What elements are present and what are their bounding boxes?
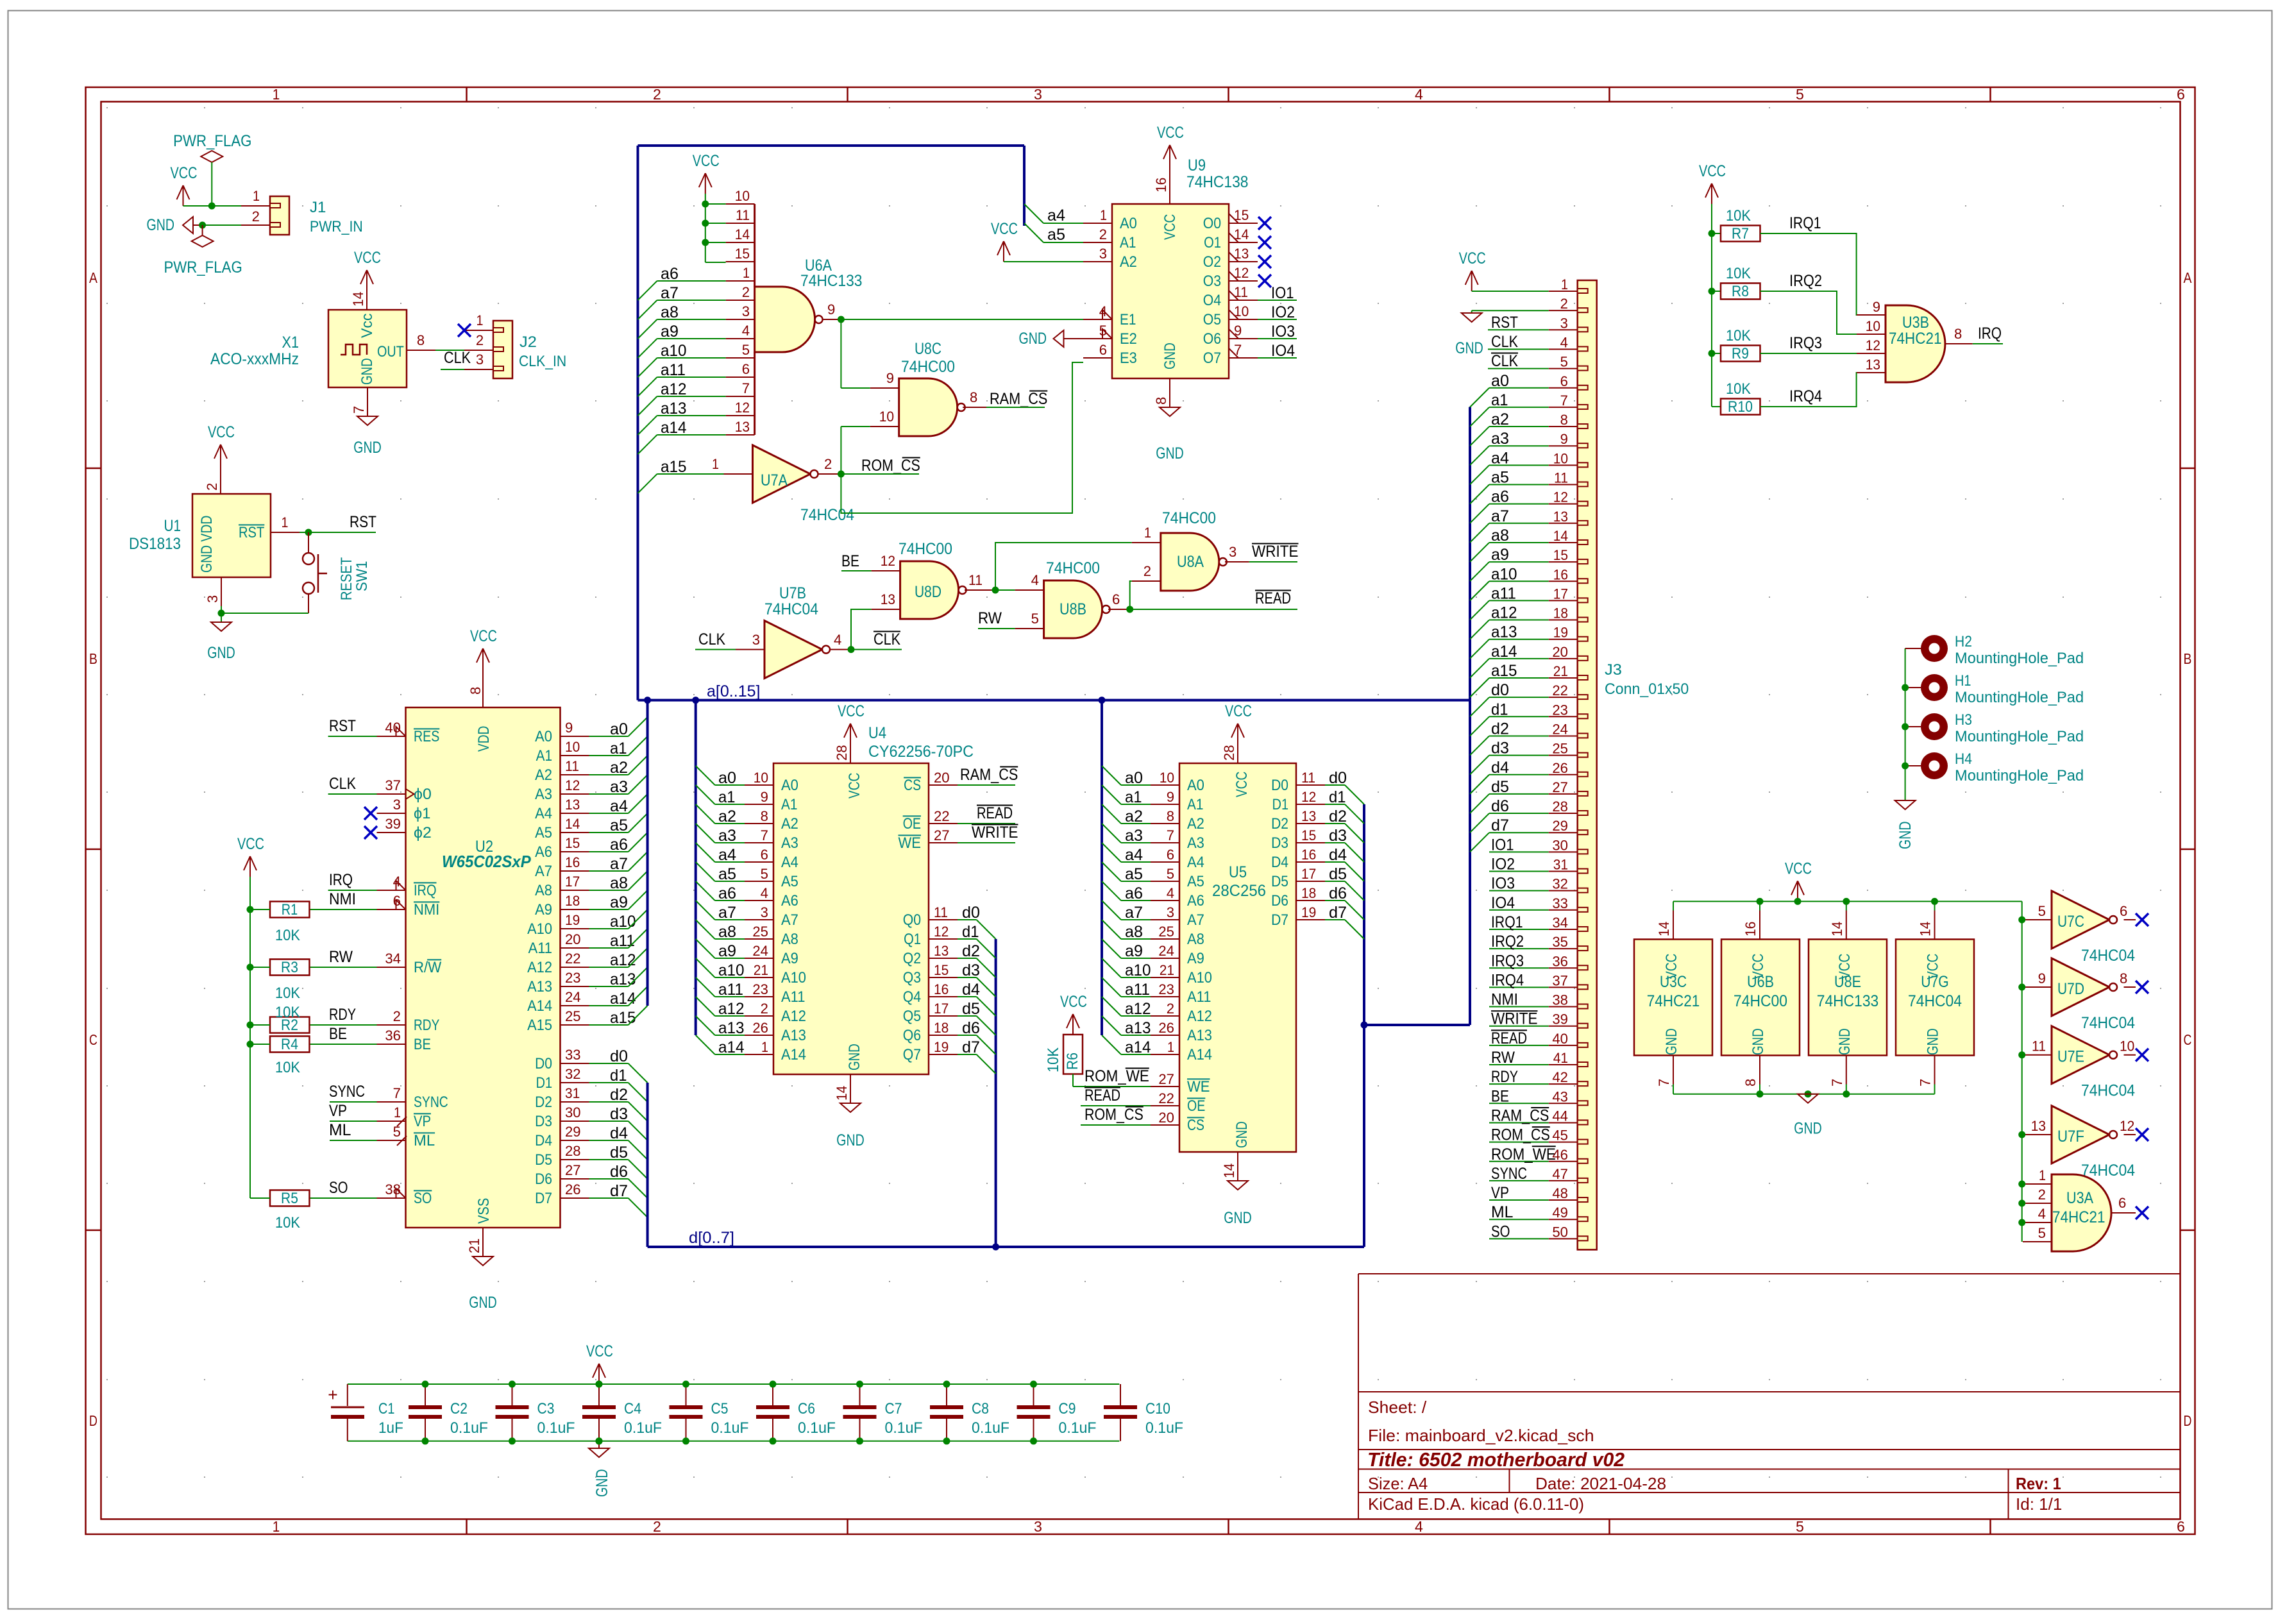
svg-text:13: 13 bbox=[565, 797, 580, 813]
svg-text:9: 9 bbox=[761, 789, 768, 805]
svg-text:A6: A6 bbox=[535, 843, 552, 861]
svg-text:2: 2 bbox=[476, 332, 484, 348]
svg-text:30: 30 bbox=[1552, 837, 1568, 853]
svg-text:d1: d1 bbox=[610, 1067, 627, 1085]
svg-text:a3: a3 bbox=[718, 827, 736, 845]
svg-text:O4: O4 bbox=[1203, 292, 1221, 309]
wire a2 to U4 bbox=[715, 823, 745, 824]
svg-text:3: 3 bbox=[1560, 315, 1568, 331]
svg-text:A14: A14 bbox=[781, 1046, 806, 1063]
svg-text:4: 4 bbox=[1167, 885, 1174, 901]
wire d4 from U4 bbox=[958, 996, 977, 997]
svg-text:11: 11 bbox=[1554, 470, 1568, 486]
svg-text:WRITE: WRITE bbox=[1491, 1010, 1538, 1028]
wire a11 to U4 bbox=[715, 996, 745, 997]
svg-text:a11: a11 bbox=[718, 981, 743, 999]
U2 left pins bbox=[377, 736, 406, 737]
svg-text:U8A: U8A bbox=[1177, 553, 1204, 571]
svg-text:IRQ4: IRQ4 bbox=[1491, 971, 1524, 989]
bus d[0..7] horizontal bbox=[648, 1246, 1364, 1248]
svg-text:WE: WE bbox=[1187, 1078, 1210, 1095]
svg-text:12: 12 bbox=[2120, 1118, 2134, 1134]
svg-text:d5: d5 bbox=[1329, 865, 1347, 883]
no-connect U7C output bbox=[2136, 913, 2148, 926]
junction C9 bottom bbox=[1030, 1437, 1037, 1444]
VCC symbol IRQ rail bbox=[1711, 183, 1712, 204]
svg-text:J1: J1 bbox=[310, 199, 326, 216]
wire d0 from U5 bbox=[1325, 784, 1345, 786]
svg-text:CLK: CLK bbox=[444, 349, 471, 367]
bus entry d0 bbox=[629, 1063, 648, 1083]
svg-text:24: 24 bbox=[752, 943, 768, 959]
junction C4 bottom bbox=[596, 1437, 603, 1444]
svg-text:A7: A7 bbox=[1187, 911, 1204, 929]
bus entry a14 U4 bbox=[696, 1035, 715, 1054]
svg-text:7: 7 bbox=[1656, 1079, 1672, 1087]
U8C pin 10 bbox=[870, 426, 899, 427]
wire U6A out to U9 E1 bbox=[841, 319, 1083, 320]
VCC symbol at U9 bbox=[1169, 145, 1170, 165]
capacitor C1 1uF bbox=[347, 1384, 348, 1406]
bus entry a11 bbox=[638, 377, 657, 396]
svg-text:OE: OE bbox=[1187, 1097, 1205, 1115]
bus a[0..15] left vertical bbox=[637, 146, 639, 700]
no-connect U9 O1 bbox=[1258, 236, 1271, 249]
bus entry a9 bbox=[629, 890, 648, 909]
bus entry a8 J3 bbox=[1470, 543, 1489, 562]
wire a14 bbox=[657, 434, 726, 436]
svg-text:13: 13 bbox=[735, 419, 750, 435]
bus entry a7 U5 bbox=[1102, 901, 1121, 920]
svg-text:0.1uF: 0.1uF bbox=[450, 1419, 488, 1437]
svg-text:U7D: U7D bbox=[2057, 980, 2084, 998]
svg-text:a7: a7 bbox=[610, 855, 628, 873]
U3A output pin 6 bbox=[2111, 1212, 2136, 1214]
no-connect U7D output bbox=[2136, 981, 2148, 994]
svg-text:2: 2 bbox=[653, 1518, 661, 1535]
svg-text:O7: O7 bbox=[1203, 350, 1221, 367]
svg-text:1: 1 bbox=[761, 1039, 768, 1055]
svg-text:0.1uF: 0.1uF bbox=[537, 1419, 575, 1437]
svg-text:WRITE: WRITE bbox=[1252, 543, 1299, 561]
bus entry a6 J3 bbox=[1470, 504, 1489, 523]
svg-text:6: 6 bbox=[2120, 903, 2127, 919]
svg-text:30: 30 bbox=[565, 1104, 581, 1121]
junction U7D input bbox=[2018, 984, 2025, 991]
svg-text:R8: R8 bbox=[1732, 283, 1749, 300]
svg-text:17: 17 bbox=[1553, 586, 1568, 602]
svg-text:6: 6 bbox=[1099, 342, 1107, 358]
svg-text:Sheet: /: Sheet: / bbox=[1368, 1398, 1427, 1417]
no-connect U2 phi1 bbox=[364, 807, 377, 820]
wire RW R3 to U2 bbox=[310, 967, 377, 968]
switch SW1 RESET bbox=[308, 532, 309, 553]
junction J1 pin2 bbox=[199, 222, 206, 229]
svg-text:IRQ: IRQ bbox=[1978, 325, 2002, 343]
svg-text:14: 14 bbox=[735, 226, 750, 242]
VCC symbol left rail bbox=[249, 856, 251, 877]
wire a2 bbox=[589, 774, 629, 775]
J3 pins bbox=[1578, 289, 1588, 293]
svg-text:GND: GND bbox=[1925, 1028, 1942, 1055]
svg-text:7: 7 bbox=[351, 406, 367, 414]
svg-text:A9: A9 bbox=[535, 901, 552, 918]
wire IRQ3 bbox=[1760, 353, 1857, 354]
svg-text:U9: U9 bbox=[1188, 156, 1206, 174]
wire GND rail unused gates bbox=[1673, 1094, 1935, 1095]
wire d7 J3 bbox=[1489, 832, 1549, 833]
svg-text:PWR_FLAG: PWR_FLAG bbox=[173, 132, 251, 150]
svg-text:a8: a8 bbox=[718, 923, 736, 941]
svg-text:3: 3 bbox=[1167, 904, 1174, 920]
svg-text:8: 8 bbox=[1560, 412, 1568, 428]
U3B output pin 8 IRQ bbox=[1945, 343, 1973, 344]
capacitor C6 0.1uF bbox=[772, 1384, 773, 1406]
svg-text:d3: d3 bbox=[962, 961, 980, 979]
resistor R1 10K bbox=[270, 902, 310, 918]
wire a15 bbox=[657, 473, 724, 475]
svg-text:VCC: VCC bbox=[354, 249, 381, 267]
wire a2 to U5 bbox=[1121, 823, 1151, 824]
svg-text:21: 21 bbox=[754, 962, 768, 978]
svg-text:10: 10 bbox=[879, 409, 894, 425]
svg-text:d2: d2 bbox=[1491, 720, 1509, 738]
resistor R3 10K bbox=[270, 960, 310, 976]
svg-text:O0: O0 bbox=[1203, 215, 1221, 232]
svg-text:A13: A13 bbox=[527, 978, 552, 995]
svg-text:ACO-xxxMHz: ACO-xxxMHz bbox=[210, 350, 299, 368]
svg-text:2: 2 bbox=[1167, 1001, 1174, 1017]
wire a15 J3 bbox=[1489, 677, 1549, 679]
svg-text:5: 5 bbox=[1031, 611, 1039, 627]
wire a10 bbox=[657, 357, 726, 359]
wire a7 J3 bbox=[1489, 523, 1549, 524]
bus entry a15 bbox=[629, 1006, 648, 1025]
svg-text:Date: 2021-04-28: Date: 2021-04-28 bbox=[1535, 1474, 1666, 1493]
svg-text:2: 2 bbox=[252, 208, 260, 224]
bus entry a10 U4 bbox=[696, 958, 715, 977]
wire d2 from U5 bbox=[1325, 823, 1345, 824]
wire CLK to U2 bbox=[328, 793, 377, 795]
svg-text:ML: ML bbox=[1491, 1203, 1514, 1221]
svg-text:A5: A5 bbox=[535, 824, 552, 842]
wire d3 from U5 bbox=[1325, 842, 1345, 843]
svg-text:1: 1 bbox=[253, 188, 260, 204]
svg-text:16: 16 bbox=[1301, 847, 1316, 863]
svg-text:a12: a12 bbox=[718, 1000, 745, 1018]
wire d5 bbox=[589, 1159, 629, 1160]
wire d6 from U4 bbox=[958, 1035, 977, 1036]
svg-text:34: 34 bbox=[1552, 915, 1568, 931]
svg-text:0.1uF: 0.1uF bbox=[885, 1419, 923, 1437]
svg-text:RAM_CS: RAM_CS bbox=[990, 390, 1047, 408]
svg-text:74HC138: 74HC138 bbox=[1186, 173, 1249, 191]
svg-text:C3: C3 bbox=[537, 1400, 555, 1417]
svg-text:3: 3 bbox=[476, 351, 484, 368]
bus entry a0 J3 bbox=[1470, 388, 1489, 407]
svg-text:d5: d5 bbox=[1491, 778, 1509, 796]
wire VCC rail unused gates bbox=[1673, 901, 2022, 902]
svg-text:8: 8 bbox=[2120, 970, 2127, 986]
svg-text:VP: VP bbox=[414, 1113, 431, 1130]
wire a4 to U5 bbox=[1121, 861, 1151, 863]
svg-text:A3: A3 bbox=[1187, 834, 1204, 852]
bus entry a13 bbox=[638, 416, 657, 435]
bus entry a15 J3 bbox=[1470, 678, 1489, 697]
svg-text:37: 37 bbox=[1552, 972, 1568, 988]
svg-text:a9: a9 bbox=[718, 942, 736, 960]
junction H1 bbox=[1902, 684, 1909, 691]
svg-text:5: 5 bbox=[1796, 1518, 1804, 1535]
wire a10 to U4 bbox=[715, 977, 745, 978]
bus entry a5 U5 bbox=[1102, 862, 1121, 881]
U8D output pin 11 bbox=[965, 589, 992, 591]
resistor R8 10K bbox=[1721, 283, 1760, 300]
bus vertical U5 data collector bbox=[1363, 804, 1365, 1247]
svg-text:C4: C4 bbox=[624, 1400, 641, 1417]
svg-text:74HC133: 74HC133 bbox=[1817, 992, 1879, 1010]
junction C9 top bbox=[1030, 1381, 1037, 1388]
IC U1 DS1813 bbox=[192, 494, 271, 577]
svg-text:A0: A0 bbox=[1187, 777, 1204, 794]
wire a8 to U5 bbox=[1121, 938, 1151, 940]
grid dots (decorative) bbox=[106, 107, 2161, 1478]
wire a6 bbox=[657, 280, 726, 282]
resistor R7 10K bbox=[1721, 226, 1760, 242]
svg-text:12: 12 bbox=[934, 924, 949, 940]
svg-text:1: 1 bbox=[712, 456, 719, 472]
J2 pin 2 bbox=[464, 350, 493, 351]
junction C6 bottom bbox=[770, 1437, 777, 1444]
bus entry a11 U5 bbox=[1102, 977, 1121, 997]
svg-text:a8: a8 bbox=[1491, 527, 1509, 545]
U4 address pins A0-A14 bbox=[745, 784, 773, 786]
bus entry a13 bbox=[629, 967, 648, 986]
wire RST from U1 bbox=[300, 532, 376, 533]
svg-text:10K: 10K bbox=[1726, 207, 1751, 224]
wire a4 bbox=[589, 813, 629, 814]
svg-text:a7: a7 bbox=[1125, 904, 1143, 922]
svg-text:VCC: VCC bbox=[846, 773, 863, 799]
bus a[0..15] drop to U9 bbox=[1023, 146, 1025, 226]
svg-text:Q7: Q7 bbox=[903, 1046, 921, 1063]
svg-text:16: 16 bbox=[1153, 178, 1169, 192]
bus entry a1 bbox=[629, 736, 648, 756]
bus entry a6 bbox=[638, 281, 657, 300]
svg-text:7: 7 bbox=[742, 380, 750, 396]
svg-text:a7: a7 bbox=[1491, 507, 1509, 525]
svg-text:43: 43 bbox=[1552, 1088, 1568, 1104]
svg-text:d0: d0 bbox=[610, 1047, 628, 1065]
svg-text:GND: GND bbox=[1455, 339, 1483, 357]
svg-text:U4: U4 bbox=[868, 724, 886, 742]
svg-text:VCC: VCC bbox=[1925, 954, 1942, 979]
wire a5 to U9 A1 bbox=[1043, 242, 1083, 243]
GND symbol mounting holes bbox=[1895, 800, 1916, 809]
svg-text:29: 29 bbox=[565, 1124, 581, 1140]
wire a7 bbox=[589, 870, 629, 872]
svg-text:A1: A1 bbox=[781, 796, 797, 813]
svg-text:d1: d1 bbox=[1329, 788, 1346, 806]
U6A output pin 9 bbox=[823, 319, 841, 320]
svg-text:A14: A14 bbox=[1187, 1046, 1212, 1063]
svg-text:7: 7 bbox=[393, 1085, 401, 1101]
svg-text:CLK: CLK bbox=[1491, 333, 1518, 351]
svg-text:RW: RW bbox=[1491, 1049, 1515, 1067]
svg-text:13: 13 bbox=[881, 591, 895, 607]
capacitor C3 0.1uF bbox=[512, 1384, 513, 1406]
resistor R2 10K bbox=[270, 1017, 310, 1033]
svg-text:a6: a6 bbox=[610, 836, 628, 854]
svg-text:A3: A3 bbox=[781, 834, 798, 852]
bus entry a14 U5 bbox=[1102, 1035, 1121, 1054]
svg-text:6: 6 bbox=[2177, 1518, 2185, 1535]
svg-text:74HC04: 74HC04 bbox=[2081, 947, 2135, 965]
resistor R9 10K bbox=[1721, 346, 1760, 362]
svg-text:47: 47 bbox=[1552, 1166, 1568, 1182]
svg-text:ROM_WE: ROM_WE bbox=[1084, 1067, 1149, 1085]
svg-text:D5: D5 bbox=[1271, 873, 1288, 890]
VCC symbol at R6 bbox=[1072, 1014, 1074, 1035]
junction R4 rail bbox=[247, 1041, 254, 1048]
mounting hole H4 bbox=[1905, 765, 1921, 766]
junction GND stem bbox=[1805, 1090, 1812, 1097]
bus entry d3 U5 bbox=[1345, 843, 1364, 862]
junction C3 top bbox=[509, 1381, 516, 1388]
wire a4 J3 bbox=[1489, 464, 1549, 466]
bus entry d5 U5 bbox=[1345, 881, 1364, 901]
bus junction link bbox=[1361, 1022, 1368, 1029]
svg-text:18: 18 bbox=[1301, 885, 1316, 901]
svg-text:1: 1 bbox=[282, 514, 289, 530]
VCC symbol above U2 bbox=[482, 648, 484, 669]
bus entry a7 J3 bbox=[1470, 523, 1489, 543]
svg-text:a12: a12 bbox=[661, 380, 687, 398]
svg-text:d0: d0 bbox=[1329, 769, 1347, 787]
svg-text:12: 12 bbox=[881, 553, 895, 569]
svg-text:a0: a0 bbox=[718, 769, 736, 787]
svg-text:RST: RST bbox=[239, 524, 265, 541]
svg-text:a13: a13 bbox=[1125, 1019, 1151, 1037]
svg-text:RAM_CS: RAM_CS bbox=[1491, 1106, 1549, 1124]
junction R7 rail bbox=[1709, 230, 1716, 237]
connector J2 CLK_IN bbox=[493, 321, 512, 378]
svg-text:4: 4 bbox=[742, 323, 750, 339]
svg-text:H4: H4 bbox=[1955, 750, 1972, 768]
wire IRQ1 bbox=[1760, 233, 1857, 315]
wire a13 to U4 bbox=[715, 1035, 745, 1036]
svg-text:R3: R3 bbox=[281, 959, 298, 976]
wire d2 J3 bbox=[1489, 735, 1549, 736]
svg-text:a6: a6 bbox=[718, 884, 736, 902]
svg-text:10K: 10K bbox=[275, 1214, 300, 1231]
svg-text:GND: GND bbox=[1663, 1028, 1680, 1055]
U9 pin 8 GND bbox=[1169, 378, 1170, 407]
svg-text:E2: E2 bbox=[1120, 330, 1137, 348]
U8D pin 13 bbox=[872, 609, 900, 610]
junction U7G VCC bbox=[1931, 898, 1938, 905]
junction GND caps bbox=[596, 1437, 603, 1444]
bus vertical U2 address collector bbox=[646, 700, 649, 1006]
bus entry d6 U4 bbox=[977, 1035, 996, 1054]
bus entry d7 U4 bbox=[977, 1054, 996, 1074]
svg-text:a5: a5 bbox=[1491, 469, 1509, 487]
wire a2 J3 bbox=[1489, 426, 1549, 427]
svg-text:J2: J2 bbox=[519, 334, 537, 351]
svg-text:7: 7 bbox=[1560, 393, 1568, 409]
wire a7 to U5 bbox=[1121, 919, 1151, 920]
svg-text:U8D: U8D bbox=[915, 583, 941, 601]
svg-text:10: 10 bbox=[2120, 1038, 2134, 1054]
svg-text:Conn_01x50: Conn_01x50 bbox=[1605, 681, 1689, 698]
svg-text:20: 20 bbox=[1552, 644, 1568, 660]
wire d7 from U4 bbox=[958, 1054, 977, 1055]
resistor R5 10K bbox=[270, 1190, 310, 1206]
X1 pin 14 Vcc bbox=[366, 291, 367, 310]
junction U6B GND bbox=[1757, 1090, 1764, 1097]
svg-text:27: 27 bbox=[565, 1162, 581, 1178]
svg-text:74HC04: 74HC04 bbox=[764, 600, 818, 618]
bus entry a12 U4 bbox=[696, 997, 715, 1016]
svg-text:R1: R1 bbox=[282, 901, 298, 918]
bus entry a11 bbox=[629, 929, 648, 948]
svg-text:12: 12 bbox=[565, 777, 580, 793]
svg-text:2: 2 bbox=[204, 483, 220, 491]
junction U8D out bbox=[992, 587, 999, 594]
svg-text:0.1uF: 0.1uF bbox=[972, 1419, 1009, 1437]
wire a6 to U5 bbox=[1121, 900, 1151, 901]
svg-text:a11: a11 bbox=[1125, 981, 1150, 999]
bus entry d5 J3 bbox=[1470, 794, 1489, 813]
svg-text:21: 21 bbox=[466, 1239, 482, 1253]
resistor R6 10K pullup bbox=[1063, 1035, 1083, 1074]
wire a9 to U5 bbox=[1121, 958, 1151, 959]
wire d3 from U4 bbox=[958, 977, 977, 978]
svg-text:VCC: VCC bbox=[1836, 954, 1853, 979]
svg-text:C: C bbox=[89, 1031, 97, 1048]
svg-text:36: 36 bbox=[385, 1028, 401, 1044]
svg-text:A13: A13 bbox=[781, 1027, 806, 1044]
svg-text:H2: H2 bbox=[1955, 633, 1972, 650]
bus vertical J3 address collector bbox=[1469, 407, 1471, 700]
svg-text:ROM_CS: ROM_CS bbox=[861, 457, 920, 475]
svg-text:IO2: IO2 bbox=[1271, 303, 1295, 321]
svg-text:BE: BE bbox=[414, 1036, 431, 1053]
U9 pin 16 VCC bbox=[1169, 165, 1170, 204]
wire a1 to U4 bbox=[715, 804, 745, 805]
svg-text:15: 15 bbox=[1553, 547, 1568, 563]
svg-text:0.1uF: 0.1uF bbox=[1145, 1419, 1183, 1437]
svg-text:4: 4 bbox=[2038, 1206, 2046, 1222]
svg-text:A10: A10 bbox=[527, 920, 552, 938]
wire a12 to U4 bbox=[715, 1015, 745, 1017]
bus entry a5 U4 bbox=[696, 862, 715, 881]
svg-text:a14: a14 bbox=[1125, 1038, 1151, 1056]
svg-text:WE: WE bbox=[899, 834, 922, 852]
svg-text:VCC: VCC bbox=[586, 1342, 613, 1360]
no-connect U2 phi2 bbox=[364, 826, 377, 839]
wire VP to U2 bbox=[330, 1121, 377, 1122]
wire a9 to U4 bbox=[715, 958, 745, 959]
svg-text:A: A bbox=[89, 269, 97, 286]
svg-text:MountingHole_Pad: MountingHole_Pad bbox=[1955, 767, 2084, 784]
gate U8D 74HC00 NAND bbox=[900, 561, 959, 619]
svg-text:4: 4 bbox=[761, 885, 768, 901]
svg-text:74HC00: 74HC00 bbox=[1046, 559, 1100, 577]
junction U3A pin4 bbox=[2018, 1219, 2025, 1226]
drawing frame inner bbox=[101, 102, 2181, 1519]
svg-text:A8: A8 bbox=[781, 931, 798, 948]
